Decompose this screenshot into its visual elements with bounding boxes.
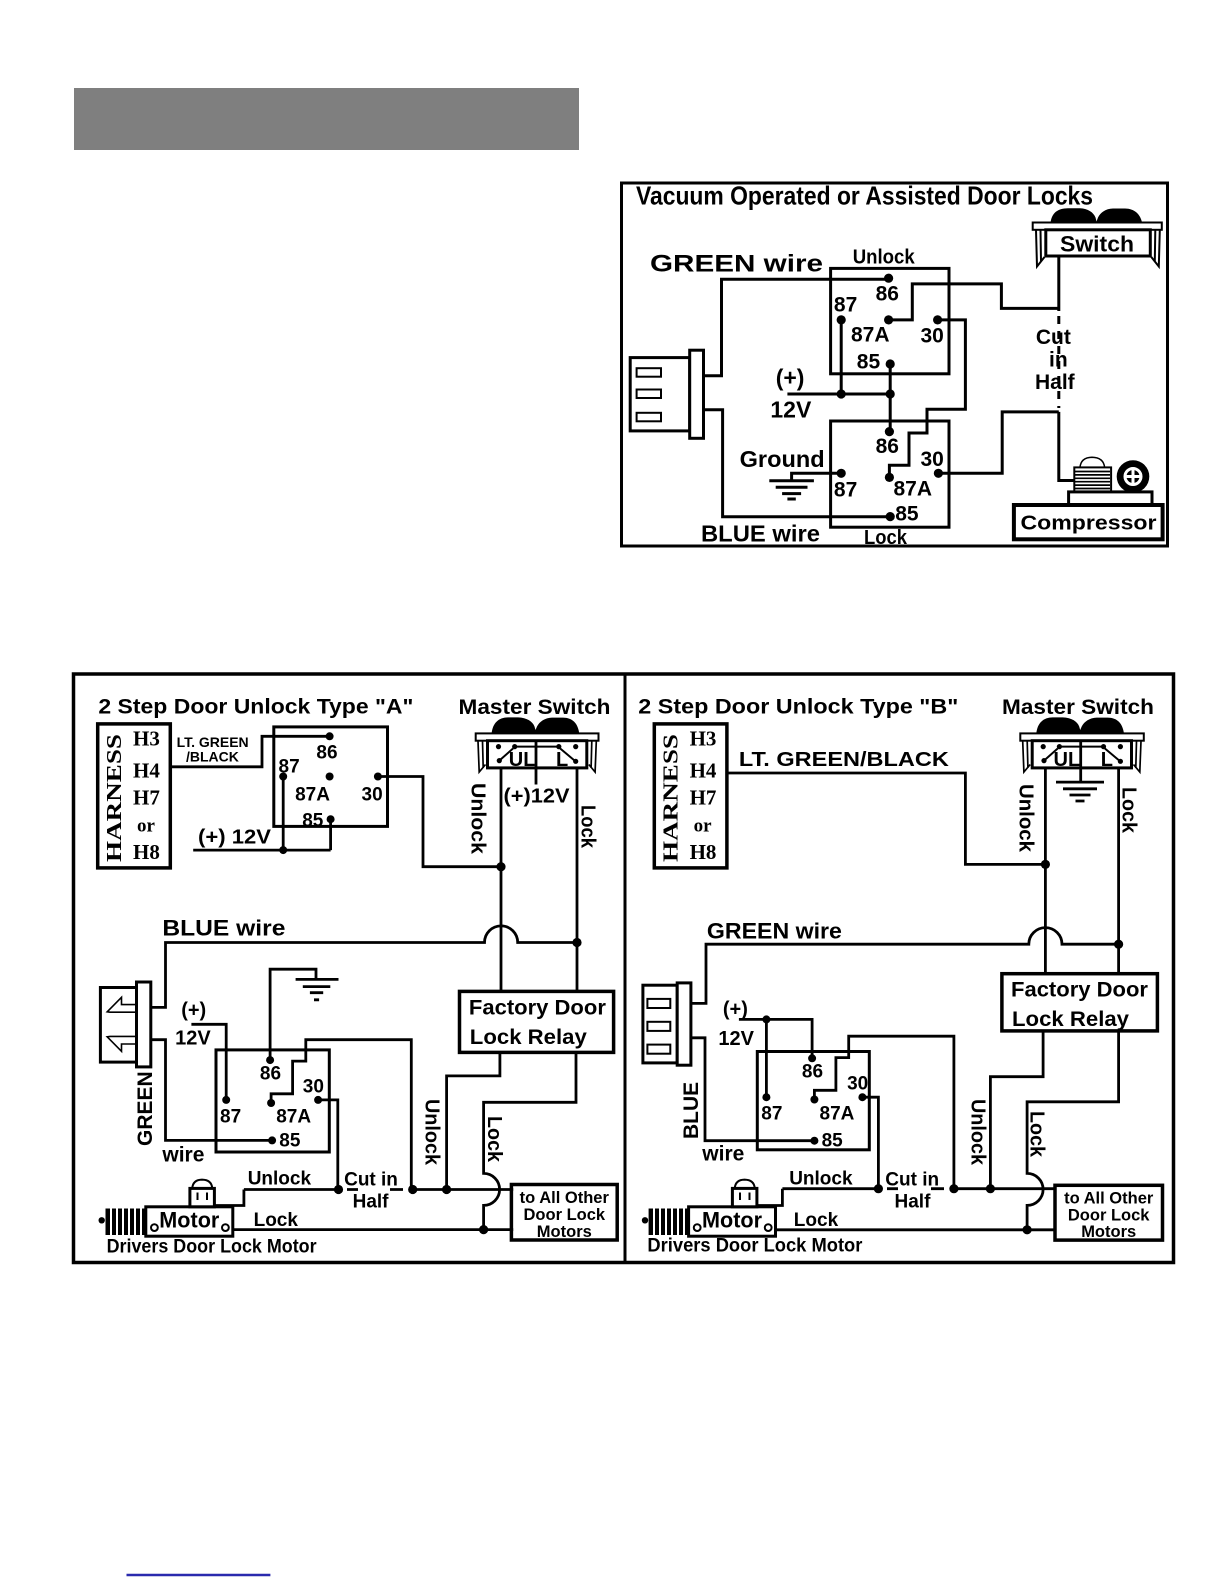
- ground symbol: [769, 481, 814, 499]
- svg-text:Half: Half: [1035, 371, 1076, 394]
- master switch B plate: [1020, 733, 1144, 740]
- relay A1 pin 30: [374, 773, 382, 781]
- svg-text:UL: UL: [1054, 749, 1081, 771]
- unlock wire B: switch to factory relay: [1044, 768, 1047, 974]
- svg-text:86: 86: [876, 435, 899, 458]
- connector P2 slot 1: [647, 999, 670, 1008]
- svg-text:Half: Half: [353, 1192, 390, 1213]
- 12V wire A2 to pin87: [191, 1024, 226, 1100]
- relay A1 pin 87: [279, 773, 287, 781]
- unlock line B: [782, 1187, 1054, 1190]
- connector P2 tab: [677, 983, 691, 1065]
- svg-text:Lock Relay: Lock Relay: [1012, 1008, 1129, 1031]
- gray title bar: [74, 88, 579, 150]
- svg-text:H4: H4: [133, 758, 160, 782]
- svg-text:Door Lock: Door Lock: [524, 1206, 606, 1224]
- svg-text:Door Lock: Door Lock: [1068, 1207, 1150, 1225]
- svg-text:2 Step Door Unlock Type "B": 2 Step Door Unlock Type "B": [638, 696, 958, 719]
- to all other door lock motors box A: [511, 1185, 617, 1241]
- relay K1 (Unlock) box: [831, 268, 949, 373]
- wire harness to relay A1 pin86: [170, 736, 329, 767]
- connector P2 slot 2: [647, 1022, 670, 1031]
- wire K1 pin85 to K2 pin86: [889, 364, 892, 432]
- svg-text:87: 87: [279, 757, 300, 778]
- svg-text:UL: UL: [509, 749, 536, 771]
- relay A1 pin 85: [327, 815, 335, 823]
- connector J1 slot 2: [637, 390, 661, 399]
- svg-text:(+)12V: (+)12V: [504, 786, 571, 808]
- factory door lock relay box A: [460, 991, 614, 1052]
- lock line A (motor to all-other box): [233, 1228, 513, 1231]
- svg-text:Lock: Lock: [794, 1210, 839, 1231]
- svg-text:87: 87: [761, 1104, 782, 1125]
- wire relay B pin30 to unlock line: [862, 1097, 878, 1189]
- relay K2 pin 85: [886, 512, 895, 521]
- svg-text:12V: 12V: [718, 1028, 754, 1050]
- wire relay B pin87A to cut vertical: [814, 1036, 954, 1189]
- svg-text:Lock Relay: Lock Relay: [470, 1026, 587, 1049]
- junction dot: [408, 1185, 417, 1194]
- svg-text:to All Other: to All Other: [520, 1189, 610, 1207]
- relay K1 pin 87A: [884, 315, 893, 324]
- harness box B: [654, 724, 727, 868]
- connector J1 tab: [690, 350, 704, 438]
- svg-text:L: L: [556, 749, 568, 771]
- junction dot: [986, 1184, 995, 1193]
- connector J1 slot 3: [637, 413, 661, 422]
- svg-text:86: 86: [876, 283, 899, 306]
- 12V wire B to pins 87 and 86: [739, 1019, 812, 1097]
- wire relay A2 pin30 to unlock line: [318, 1100, 338, 1190]
- relay B box: [757, 1052, 869, 1150]
- relay A2 pin 87A: [267, 1099, 275, 1107]
- motor M2 top post: [732, 1188, 757, 1206]
- svg-text:Cut: Cut: [1036, 326, 1071, 349]
- svg-text:H4: H4: [690, 758, 717, 782]
- switch SW1 right bracket: [1151, 230, 1160, 267]
- svg-text:87A: 87A: [295, 785, 330, 806]
- green wire A: connector to relay A2 pin85: [151, 1040, 272, 1141]
- svg-text:Lock: Lock: [1026, 1111, 1048, 1158]
- svg-text:Lock: Lock: [864, 527, 908, 549]
- svg-text:87A: 87A: [820, 1104, 855, 1125]
- compressor base: [1069, 492, 1152, 505]
- svg-text:or: or: [137, 815, 156, 836]
- relay K2 pin 30: [934, 469, 943, 478]
- lock wire A: switch to factory relay: [576, 768, 579, 991]
- master switch B right bracket: [1134, 741, 1142, 772]
- svg-text:Cut in: Cut in: [885, 1170, 939, 1191]
- svg-text:Lock: Lock: [577, 805, 599, 849]
- svg-text:H3: H3: [133, 726, 160, 750]
- relay A2 pin 30: [314, 1096, 322, 1104]
- cut-in-half dashed wire: [1057, 316, 1060, 408]
- wire K1 pin87A to switch: [889, 284, 1059, 320]
- blue wire B: connector to relay B pin85: [691, 1038, 815, 1141]
- svg-text:H7: H7: [690, 785, 717, 809]
- svg-text:HARNESS: HARNESS: [102, 734, 126, 862]
- wire motor to unlock line B: [757, 1189, 783, 1206]
- relay B pin 85: [810, 1137, 818, 1145]
- svg-text:87A: 87A: [851, 323, 890, 346]
- wire K1 pin30 to K2 pin87A: [889, 320, 965, 478]
- svg-text:BLUE wire: BLUE wire: [701, 521, 820, 547]
- wire motor to unlock line A: [214, 1190, 244, 1206]
- svg-text:85: 85: [822, 1130, 844, 1151]
- unlock line A cut segment: [347, 1188, 403, 1191]
- svg-text:12V: 12V: [770, 397, 812, 423]
- blue wire A with bridge over unlock: [151, 926, 577, 1008]
- relay K1 pin 86: [884, 274, 893, 283]
- svg-text:Unlock: Unlock: [853, 247, 916, 269]
- svg-text:87A: 87A: [894, 478, 933, 501]
- svg-text:85: 85: [895, 502, 919, 525]
- svg-text:85: 85: [302, 811, 324, 832]
- relay B pin 86: [808, 1054, 816, 1062]
- compressor coil dome: [1080, 457, 1105, 467]
- svg-text:LT. GREEN/BLACK: LT. GREEN/BLACK: [739, 749, 950, 771]
- svg-text:30: 30: [362, 785, 383, 806]
- svg-text:or: or: [694, 815, 713, 836]
- unlock line A (motor to all-other box): [244, 1188, 513, 1191]
- junction dot: [334, 1185, 343, 1194]
- svg-text:Lock: Lock: [483, 1116, 505, 1163]
- to all other door lock motors box B: [1055, 1185, 1163, 1240]
- wire relay A1 pin30 to unlock vertical: [378, 777, 501, 867]
- junction dot: [442, 1185, 451, 1194]
- relay A2 box: [216, 1050, 329, 1152]
- svg-text:Unlock: Unlock: [789, 1169, 853, 1190]
- svg-text:Factory Door: Factory Door: [1011, 979, 1148, 1002]
- svg-text:2 Step Door Unlock Type "A": 2 Step Door Unlock Type "A": [98, 696, 413, 719]
- junction dot: [572, 938, 581, 947]
- junction dot: [762, 1015, 770, 1023]
- relay A2 pin 87: [222, 1096, 230, 1104]
- master switch B contact box: [1032, 741, 1131, 768]
- wire unlock line to factory relay B: [990, 1031, 1043, 1189]
- svg-text:Unlock: Unlock: [421, 1099, 443, 1166]
- panel divider: [624, 674, 627, 1263]
- svg-text:Unlock: Unlock: [967, 1099, 989, 1166]
- svg-text:HARNESS: HARNESS: [659, 734, 683, 862]
- switch SW1 left bracket: [1036, 230, 1045, 267]
- svg-text:Unlock: Unlock: [248, 1169, 312, 1190]
- relay K2 pin 86: [885, 427, 894, 436]
- relay A2 pin 86: [266, 1056, 274, 1064]
- wire harness B to unlock vertical: [727, 773, 1045, 864]
- wire K2 pin30 to compressor: [938, 412, 1074, 481]
- svg-text:in: in: [1049, 349, 1068, 372]
- svg-text:86: 86: [260, 1063, 281, 1084]
- svg-text:30: 30: [847, 1074, 868, 1095]
- switch SW1 mounting plate: [1033, 223, 1162, 230]
- wire K1 pin87 to 12V rail: [840, 320, 843, 394]
- master switch A plate: [476, 733, 599, 740]
- relay A2 pin 85: [268, 1136, 276, 1144]
- relay B pin 87A: [810, 1096, 818, 1104]
- svg-text:Motors: Motors: [1081, 1223, 1136, 1241]
- wire switch to cut point: [1057, 256, 1060, 311]
- green wire: connector to unlock relay 86: [704, 279, 889, 376]
- master switch A contact box: [488, 741, 587, 768]
- svg-text:Cut in: Cut in: [344, 1170, 398, 1191]
- relay K2 pin 87: [837, 469, 846, 478]
- relay K1 pin 87: [837, 315, 846, 324]
- svg-text:(+): (+): [723, 999, 748, 1021]
- svg-text:Half: Half: [895, 1192, 932, 1213]
- svg-text:BLUE: BLUE: [680, 1082, 703, 1139]
- motor M1 boot: [106, 1209, 146, 1236]
- connector P1 arrow pin 2: [107, 1036, 137, 1051]
- wire K2 pin87 to ground: [792, 473, 842, 481]
- svg-text:30: 30: [921, 324, 944, 347]
- harness box A: [98, 724, 171, 868]
- motor M2 boot: [649, 1209, 689, 1236]
- svg-text:Motors: Motors: [537, 1223, 592, 1241]
- relay K2 pin 87A: [885, 473, 894, 482]
- svg-text:87A: 87A: [276, 1106, 311, 1127]
- motor M1 body: [146, 1207, 233, 1236]
- master switch A right bracket: [589, 741, 597, 772]
- relay K1 pin 30: [933, 315, 942, 324]
- svg-text:wire: wire: [701, 1143, 744, 1166]
- svg-text:87: 87: [834, 479, 857, 502]
- svg-text:87: 87: [834, 294, 857, 317]
- svg-text:(+): (+): [776, 365, 805, 391]
- unlock line B cut segment: [887, 1187, 944, 1190]
- svg-text:Unlock: Unlock: [1015, 784, 1037, 853]
- connector P1 arrow pin 1: [107, 997, 137, 1012]
- relay K1 pin 85: [886, 359, 895, 368]
- master switch A center stub to 12V: [535, 741, 538, 785]
- svg-text:Ground: Ground: [740, 446, 825, 472]
- junction dot: [874, 1184, 883, 1193]
- svg-text:GREEN wire: GREEN wire: [707, 919, 842, 944]
- junction dot: [837, 389, 846, 398]
- motor M1 top post: [190, 1188, 215, 1206]
- lock line B: [776, 1228, 1055, 1231]
- compressor fan disc: [1117, 460, 1150, 493]
- master switch A rocker caps: [492, 717, 580, 734]
- svg-text:87: 87: [220, 1106, 241, 1127]
- svg-text:Vacuum Operated or Assisted Do: Vacuum Operated or Assisted Door Locks: [636, 181, 1093, 211]
- svg-text:wire: wire: [161, 1144, 204, 1167]
- motor M2 screws: [694, 1224, 701, 1231]
- wire relay A2 pin86 to ground: [270, 969, 316, 1060]
- svg-text:Master Switch: Master Switch: [1002, 696, 1154, 719]
- wire relay A2 pin87A to cut vertical: [271, 1040, 411, 1190]
- master switch A contacts: [496, 744, 501, 749]
- green wire B with bridge over unlock: [691, 928, 1119, 1004]
- connector J1 slot 1: [637, 368, 661, 377]
- lock wire A: factory relay to lock line with bridge: [484, 1052, 576, 1229]
- master switch B left bracket: [1023, 741, 1030, 772]
- junction dot: [949, 1184, 958, 1193]
- connector P2 slot 3: [647, 1045, 670, 1054]
- connector P1 (A) body: [100, 988, 137, 1063]
- master switch A left bracket: [478, 741, 486, 772]
- motor M2 body: [689, 1207, 776, 1236]
- ground symbol B: [1056, 782, 1104, 801]
- diagram frame: Vacuum Operated or Assisted Door Locks: [622, 183, 1168, 546]
- relay B pin 30: [858, 1093, 866, 1101]
- ground symbol A: [296, 979, 339, 999]
- relay A1 pin 86: [326, 732, 334, 740]
- 12V feed wire: [787, 393, 890, 396]
- svg-text:86: 86: [316, 743, 337, 764]
- junction dot: [1023, 1225, 1032, 1234]
- junction dot: [1041, 860, 1050, 869]
- svg-text:30: 30: [921, 448, 944, 471]
- svg-text:Motor: Motor: [159, 1208, 219, 1233]
- 12V rail A1: [193, 777, 330, 851]
- master switch B rocker caps: [1036, 717, 1124, 734]
- svg-text:(+) 12V: (+) 12V: [198, 827, 272, 849]
- lock wire B: switch to factory relay: [1117, 768, 1120, 974]
- svg-text:Lock: Lock: [1118, 787, 1140, 834]
- junction dot: [886, 389, 895, 398]
- svg-text:Unlock: Unlock: [467, 783, 489, 855]
- svg-text:H8: H8: [690, 840, 717, 864]
- connector J1 body: [630, 358, 690, 431]
- svg-text:/BLACK: /BLACK: [186, 749, 239, 765]
- svg-text:Motor: Motor: [702, 1208, 762, 1233]
- factory door lock relay box B: [1002, 974, 1158, 1031]
- blue underline mark: [127, 1574, 271, 1577]
- connector P1 tab: [137, 982, 151, 1067]
- master switch B contacts: [1041, 744, 1046, 749]
- svg-text:86: 86: [802, 1062, 823, 1083]
- master switch B center stub to ground: [1079, 741, 1082, 782]
- wire unlock line to factory relay A: [447, 1052, 500, 1189]
- svg-text:Lock: Lock: [254, 1210, 299, 1231]
- svg-text:L: L: [1101, 749, 1113, 771]
- switch SW1 body: [1046, 230, 1151, 256]
- svg-text:85: 85: [857, 350, 881, 373]
- connector P2 (B) body: [643, 985, 677, 1063]
- svg-text:Factory Door: Factory Door: [469, 997, 606, 1020]
- junction dot: [1114, 940, 1123, 949]
- svg-text:(+): (+): [181, 1000, 206, 1022]
- junction dot: [479, 1225, 488, 1234]
- svg-text:H7: H7: [133, 785, 160, 809]
- relay A1 box: [274, 727, 388, 827]
- svg-text:85: 85: [279, 1131, 301, 1152]
- svg-text:BLUE wire: BLUE wire: [162, 916, 285, 941]
- svg-text:Master Switch: Master Switch: [459, 696, 611, 719]
- svg-text:Drivers Door Lock Motor: Drivers Door Lock Motor: [647, 1236, 863, 1257]
- svg-text:to All Other: to All Other: [1064, 1190, 1154, 1208]
- svg-text:Drivers Door Lock Motor: Drivers Door Lock Motor: [107, 1237, 318, 1258]
- motor M1 screws: [151, 1224, 158, 1231]
- svg-text:Compressor: Compressor: [1021, 513, 1157, 535]
- svg-text:GREEN wire: GREEN wire: [650, 251, 823, 278]
- svg-text:GREEN: GREEN: [134, 1071, 157, 1146]
- svg-text:30: 30: [303, 1076, 324, 1097]
- bottom diagrams outer frame: [74, 674, 1174, 1263]
- junction dot: [496, 862, 505, 871]
- svg-text:H8: H8: [133, 840, 160, 864]
- relay B pin 87: [762, 1093, 770, 1101]
- junction dot: [279, 846, 287, 854]
- svg-text:12V: 12V: [175, 1028, 211, 1050]
- unlock wire A: switch to factory relay: [500, 768, 503, 991]
- blue wire: connector to lock relay 85: [704, 410, 891, 517]
- relay A1 pin 87A: [326, 773, 334, 781]
- relay K2 (Lock) box: [831, 421, 949, 527]
- svg-text:H3: H3: [690, 726, 717, 750]
- compressor coil body: [1074, 467, 1111, 492]
- switch SW1 rocker caps: [1051, 208, 1143, 223]
- compressor label box: [1014, 505, 1163, 539]
- svg-text:Switch: Switch: [1060, 232, 1134, 257]
- lock wire B: factory relay to lock line with bridge: [1027, 1031, 1119, 1230]
